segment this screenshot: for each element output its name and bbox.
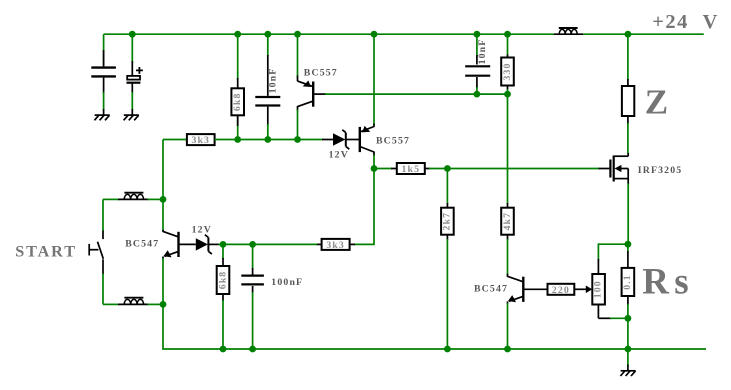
resistor R12 Z: [622, 34, 634, 153]
svg-text:V: V: [703, 11, 718, 33]
capacitor C2 (electrolytic): [127, 34, 143, 115]
inductor L3 bottom coil: [118, 298, 149, 305]
inductor L1 choke on +24V rail: [554, 28, 583, 34]
wire bottom rail: [163, 304, 706, 349]
svg-text:START: START: [15, 242, 77, 260]
wire top rail left segment: [104, 33, 554, 35]
inductor L2 top coil: [118, 193, 149, 200]
wire 1k5 line y168.5: [374, 168, 392, 170]
capacitor C1 (top-left, nonpolar): [91, 34, 116, 115]
svg-text:3k3: 3k3: [191, 135, 210, 146]
wire zener row y244: [219, 243, 253, 245]
svg-text:BC557: BC557: [376, 135, 410, 146]
zener diode D2 12V: [179, 235, 220, 254]
wire arrow 220 to 100: [574, 288, 587, 290]
svg-text:3k3: 3k3: [326, 240, 345, 251]
capacitor C3 10nF top lead: [267, 34, 269, 56]
transistor Q1 BC557 top: [298, 34, 314, 139]
wire button top to coil: [103, 198, 119, 200]
svg-text:12V: 12V: [329, 149, 349, 160]
wire line y139.5: [163, 139, 187, 141]
svg-text:10nF: 10nF: [477, 39, 488, 65]
svg-text:2k7: 2k7: [442, 212, 453, 231]
resistor R11 0.1: [622, 244, 635, 318]
resistor R2 330: [501, 34, 514, 94]
svg-text:BC547: BC547: [474, 284, 508, 295]
wire button column: [102, 199, 104, 304]
svg-text:4k7: 4k7: [502, 212, 513, 231]
svg-text:IRF3205: IRF3205: [638, 165, 683, 176]
transistor M1 IRF3205 mosfet: [610, 153, 628, 185]
resistor R6 6k8 bottom: [217, 244, 230, 349]
svg-text:6k8: 6k8: [232, 93, 243, 112]
transistor Q4 BC547 right: [508, 274, 524, 349]
svg-text:Z: Z: [645, 83, 668, 122]
svg-text:1k5: 1k5: [402, 164, 421, 175]
ground under C1: [94, 115, 109, 120]
svg-text:0.1: 0.1: [622, 274, 633, 290]
capacitor C3 10nF: [255, 97, 280, 106]
node dots: [129, 31, 631, 353]
svg-text:100: 100: [593, 280, 604, 298]
svg-text:BC547: BC547: [125, 239, 159, 250]
wire 0.1 bottom to rail: [627, 318, 629, 349]
wire Q1 base line y94: [313, 93, 326, 95]
svg-text:+24: +24: [652, 11, 689, 33]
resistor R1 6k8: [231, 88, 244, 115]
capacitor C5 100nF: [241, 244, 264, 349]
svg-text:6k8: 6k8: [217, 271, 228, 290]
wire gate line: [429, 168, 600, 170]
ground bottom right: [620, 349, 635, 376]
zener diode D1 12V: [333, 130, 360, 149]
wire 6k8 R1 top lead: [237, 34, 239, 139]
wire Q2 collector down to 3k3: [354, 169, 374, 245]
transistor Q3 BC547 left: [163, 230, 179, 305]
wire top rail right segment: [583, 33, 704, 35]
svg-text:330: 330: [502, 63, 513, 81]
wire button bottom to coil: [103, 303, 119, 305]
resistor R7 2k7: [441, 169, 454, 350]
svg-text:100nF: 100nF: [271, 277, 303, 288]
resistor R10 100: [592, 244, 628, 318]
svg-text:Rs: Rs: [642, 262, 694, 303]
resistor R5 3k3 bottom: [322, 239, 350, 250]
wire left column x163: [162, 140, 164, 231]
ground under C2: [124, 115, 139, 120]
resistor R8 4k7: [501, 94, 514, 275]
resistor R4 1k5: [397, 163, 425, 174]
svg-text:220: 220: [552, 285, 570, 296]
wire mosfet source down: [627, 184, 629, 245]
svg-text:12V: 12V: [192, 224, 212, 235]
resistor R3 3k3 top: [187, 134, 215, 145]
resistor R9 220: [548, 284, 575, 295]
pushbutton S1: [89, 230, 103, 275]
capacitor C4 10nF right: [465, 34, 490, 94]
svg-text:BC557: BC557: [304, 68, 338, 79]
svg-text:10nF: 10nF: [268, 68, 279, 94]
transistor Q2 BC557 middle: [360, 34, 374, 168]
wire Q4 base to 220: [523, 288, 547, 290]
